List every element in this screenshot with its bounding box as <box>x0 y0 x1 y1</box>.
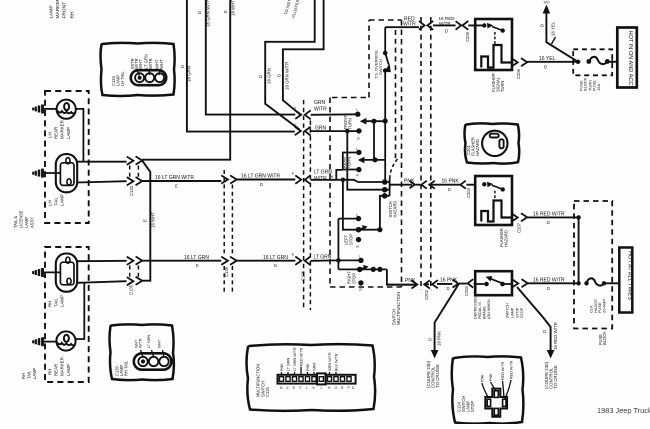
label: FUSE BLOCK <box>598 331 607 345</box>
wire: LT GRN W/TR into hazard switch <box>311 180 390 182</box>
svg-text:TO CRUISE: TO CRUISE <box>553 365 558 389</box>
label: MULTIFUNCTION SWITCH (below box) <box>392 292 402 325</box>
contact letters L/R (turn groups) <box>356 107 360 177</box>
wire: 18 GRN W/TR vertical from top <box>206 0 295 115</box>
svg-text:F: F <box>300 386 302 390</box>
label: LT GRN W/TR <box>314 170 332 183</box>
wire: LT GRN to right stop L contact <box>338 259 360 261</box>
C125 pin letters <box>280 386 355 390</box>
dashed curve notch on MF boundary <box>390 159 398 179</box>
svg-text:LAMP: LAMP <box>32 368 37 379</box>
svg-text:FRONT: FRONT <box>62 2 68 19</box>
svg-text:16 RED W/TR: 16 RED W/TR <box>533 211 565 217</box>
svg-text:PNK: PNK <box>481 374 485 382</box>
svg-text:E: E <box>175 183 178 188</box>
node: rear turn L <box>356 150 361 155</box>
node: stop output junction <box>576 281 580 285</box>
svg-text:D: D <box>547 286 550 291</box>
wire: RH tail top bulb out <box>77 260 126 262</box>
svg-text:WHT: WHT <box>158 339 162 348</box>
lamp: RH rear marker lamp <box>56 331 75 350</box>
svg-text:W/TR: W/TR <box>439 21 451 26</box>
label: STOP LAMP SWITCH C124 <box>457 396 476 412</box>
svg-text:D: D <box>448 187 451 192</box>
wire: GRN to FRONT TURN R contact <box>311 130 359 132</box>
svg-text:D: D <box>447 286 450 291</box>
svg-text:SWITCH: SWITCH <box>506 303 510 318</box>
svg-text:HOT AT ALL TIMES: HOT AT ALL TIMES <box>626 251 632 300</box>
wire: left stop bus to riser <box>360 229 380 231</box>
wire: 16 RED W/TR cruise branch with arrow <box>517 287 551 352</box>
svg-text:STOP: STOP <box>516 307 520 318</box>
ground G4 (RH rear marker) <box>33 337 56 346</box>
node: GRN junction <box>345 129 350 134</box>
node: right stop bus junctions <box>371 267 376 272</box>
rear turn contact bracket <box>343 153 358 170</box>
svg-text:C135: C135 <box>129 284 134 295</box>
node: rear turn bus junction <box>372 157 377 162</box>
svg-text:E: E <box>223 10 228 13</box>
svg-text:C125: C125 <box>301 270 306 281</box>
label: TO INSTRUMENT CLUSTER <box>283 0 300 18</box>
svg-text:REAR: REAR <box>54 364 59 376</box>
wire: 16 WHT riser from C133 junction down to C135 <box>142 161 150 281</box>
label: HAZARD FLASHER (schematic) <box>499 228 509 247</box>
svg-text:GRN W/TR: GRN W/TR <box>328 352 332 371</box>
wire: LH tail top bulb out <box>77 161 126 163</box>
svg-text:LAMP: LAMP <box>60 295 65 307</box>
dashed enclosure: RH tail lamp assembly <box>45 247 89 382</box>
T.S. override switch <box>384 27 386 52</box>
svg-text:9/O: 9/O <box>544 0 550 4</box>
svg-text:LH TAIL: LH TAIL <box>120 71 125 86</box>
tiny pin letters at bulkhead <box>292 107 297 257</box>
svg-text:16 LT GRN W/TR: 16 LT GRN W/TR <box>155 175 194 181</box>
label: LH TAIL LAMP C133 <box>111 71 125 86</box>
C124 cross connector <box>485 389 507 417</box>
wire: override riser down to hazard contact <box>384 121 386 182</box>
component view: HAZARD FLASHER C201 <box>465 123 520 163</box>
svg-text:LH: LH <box>48 132 53 138</box>
svg-text:16 WHT: 16 WHT <box>151 212 156 228</box>
wire: GRN riser to hazard mid contact <box>347 131 389 190</box>
lamp: LH tail lamp (dual bulb) <box>56 154 77 192</box>
fuse F2 (CLK HAZ/STOP 20A) <box>584 278 619 285</box>
wire: 16 RED W/TR hazard output <box>527 216 578 218</box>
svg-text:18 PNK: 18 PNK <box>437 331 442 346</box>
wire: stop output drop and exit <box>387 269 417 284</box>
ground G1 (LH rear marker lamp) <box>33 105 56 114</box>
wire: LH tail bottom bulb out <box>77 181 126 182</box>
svg-text:TAIL: TAIL <box>54 196 59 206</box>
svg-text:STOP: STOP <box>520 307 524 318</box>
svg-text:G: G <box>335 386 338 390</box>
node: left stop L contact <box>356 216 361 221</box>
svg-text:LAMP: LAMP <box>60 194 65 206</box>
svg-text:HAZARD: HAZARD <box>504 230 509 247</box>
wire: 16 LT GRN W/TR mid run <box>237 179 296 181</box>
svg-text:16 PNK: 16 PNK <box>440 278 458 284</box>
front turn wiper <box>365 120 385 122</box>
svg-text:MARKER: MARKER <box>55 0 61 19</box>
label: STOP LAMP SWITCH (ON WHEN BRAKE PEDAL IS DEPRESSED) <box>474 294 525 319</box>
wire: instrument cluster branch (outer corner) <box>283 0 324 114</box>
node: right stop L contact <box>358 258 363 263</box>
svg-text:BRAKE: BRAKE <box>483 306 487 319</box>
svg-text:LAMP: LAMP <box>66 364 71 376</box>
node: right stop R contact <box>358 280 363 285</box>
svg-text:E: E <box>196 263 199 268</box>
label: 16 RED W/TR / D <box>439 16 456 33</box>
node: 16 YEL junction <box>576 60 580 64</box>
dashed enclosure: fuse block <box>574 201 612 329</box>
wire: LT GRN feed to left stop L <box>338 218 358 220</box>
stop lamp switch internals <box>475 276 512 286</box>
wire: 16 RED W/TR into flasher <box>385 25 484 27</box>
connector dash boundaries at C133/C135 <box>130 166 139 279</box>
svg-text:16 YEL: 16 YEL <box>551 21 556 36</box>
node: rear turn R <box>356 167 361 172</box>
svg-text:W/TR: W/TR <box>148 58 153 69</box>
svg-text:C207: C207 <box>517 222 522 233</box>
component view: MULTIFUNCTION SWITCH C125 <box>247 344 376 411</box>
svg-text:WHT: WHT <box>138 59 143 69</box>
component view: RH TAIL LAMP C135 <box>110 324 174 380</box>
svg-text:BLOCK: BLOCK <box>602 331 607 345</box>
connector dash boundaries C138 <box>224 170 232 292</box>
svg-text:E: E <box>143 219 148 222</box>
svg-text:MARKER: MARKER <box>60 357 65 376</box>
wire: junction riser to stop feed <box>578 217 580 283</box>
svg-text:L: L <box>356 107 358 111</box>
wire: 18 PNK cruise control branch with arrow <box>435 284 459 352</box>
svg-text:TAIL: TAIL <box>54 297 59 307</box>
svg-text:16 RED W/TR: 16 RED W/TR <box>533 277 565 283</box>
wire: 16 PNK hazard feed <box>390 184 476 186</box>
wire: LT GRN W/TR drop to left stop wiper <box>343 180 358 230</box>
node: LT GRN junction <box>336 258 341 263</box>
label: LH TAIL LAMP <box>48 194 65 206</box>
wire: instrument cluster branch (inner corner) <box>265 0 315 130</box>
label: RH REAR MARKER LAMP <box>48 357 72 376</box>
fuse F1 (turn fuse 15A) <box>586 57 617 68</box>
svg-text:18 GRN: 18 GRN <box>267 68 272 84</box>
node: LT GRN W/TR junction <box>341 178 346 183</box>
C124 pin labels with leaders <box>482 380 511 400</box>
wire: right stop bus <box>338 268 387 270</box>
hazard flasher U2 box <box>475 176 512 225</box>
svg-text:RED W/TR: RED W/TR <box>300 347 304 366</box>
svg-text:C133: C133 <box>129 185 134 196</box>
svg-text:D: D <box>428 338 433 341</box>
svg-text:LT GRN W/TR: LT GRN W/TR <box>293 347 297 371</box>
svg-text:D: D <box>540 24 545 27</box>
node: front turn L <box>355 112 360 117</box>
svg-text:LAMP: LAMP <box>66 127 71 139</box>
power box: HOT IN ON AND ACCY <box>617 28 637 88</box>
svg-text:W/TR: W/TR <box>139 338 143 348</box>
label: TO CRUISE CONTROL (COUPE 230) right <box>544 361 558 389</box>
svg-text:HAZARD: HAZARD <box>475 139 480 156</box>
label: TURN SIGNAL FLASHER <box>491 73 505 92</box>
svg-text:STOP: STOP <box>348 234 353 245</box>
wire: LT GRN riser <box>337 219 339 270</box>
label: GRN W/TR (right of bulkhead) <box>314 100 327 113</box>
wire: branch to rear turn bracket <box>336 170 343 180</box>
svg-text:C206: C206 <box>516 68 521 79</box>
svg-text:LT GRN: LT GRN <box>287 357 291 371</box>
node: front turn R <box>356 128 361 133</box>
connector C125 bulkhead chevrons (4 wires) <box>295 110 311 265</box>
wire: 16 LT GRN into box <box>311 259 339 261</box>
svg-text:C202: C202 <box>424 289 429 300</box>
label: T.S. OVERRIDE SWITCH <box>374 50 383 79</box>
node: left stop bus junction <box>377 227 382 232</box>
svg-text:STOP: STOP <box>351 273 356 284</box>
node: hazard output junction <box>576 215 580 219</box>
label: HAZARD FLASHER C201 <box>466 137 480 156</box>
svg-text:16 LT GRN W/TR: 16 LT GRN W/TR <box>241 174 280 180</box>
label: FRONT TURN <box>343 115 352 130</box>
svg-text:16 LT GRN: 16 LT GRN <box>184 255 209 261</box>
hazard switch common bar <box>389 179 391 196</box>
rear turn wiper <box>364 159 386 161</box>
svg-text:PEDAL IS: PEDAL IS <box>478 302 482 319</box>
svg-text:D: D <box>542 330 547 333</box>
svg-text:Z: Z <box>287 386 289 390</box>
svg-text:RH: RH <box>70 11 76 18</box>
ground G2 (LH tail lamp) <box>33 169 60 178</box>
turn signal flasher internals <box>481 23 511 68</box>
svg-text:D: D <box>180 65 185 68</box>
connector C133 in-line chevrons (4 wires) <box>127 156 142 285</box>
svg-text:C204: C204 <box>464 285 469 296</box>
svg-text:C205: C205 <box>465 31 470 42</box>
wire: 18 WHT feed down to C133 junction <box>142 0 230 160</box>
labels: C135 pin wires <box>135 334 162 348</box>
node: left stop R contact <box>356 237 361 242</box>
left stop wiper node and blade <box>356 227 362 233</box>
connector dash boundaries (bulkhead) <box>304 100 311 310</box>
svg-text:18 GRN: 18 GRN <box>187 66 192 82</box>
svg-text:TURN: TURN <box>348 118 353 129</box>
svg-text:REAR: REAR <box>54 127 59 139</box>
label: RH TAIL LAMP (below oval) <box>48 295 65 307</box>
svg-text:1983 Jeep Truck: 1983 Jeep Truck <box>597 406 650 415</box>
svg-text:PNK: PNK <box>280 363 284 371</box>
wire: 16 LT GRN (RH top run) <box>142 260 221 262</box>
svg-text:18 GRN W/TR: 18 GRN W/TR <box>206 0 211 27</box>
svg-text:RH: RH <box>48 369 53 375</box>
hazard switch contact nodes <box>382 179 388 185</box>
label: RH TAIL LAMP C135 <box>115 360 129 376</box>
svg-text:C139: C139 <box>224 266 229 277</box>
stop lamp switch S1 box <box>475 271 512 295</box>
svg-text:D: D <box>197 11 202 14</box>
svg-text:15A: 15A <box>596 84 601 91</box>
label: LH REAR MARKER LAMP <box>48 120 72 139</box>
wire: marker lamp to LH tail top feed <box>76 109 84 162</box>
svg-text:GRN: GRN <box>314 100 326 106</box>
hazard flasher internals <box>481 182 511 222</box>
component view: STOP LAMP SWITCH C124 <box>452 356 524 423</box>
wire: front-to-rear turn bus link <box>373 121 375 160</box>
svg-text:GRN: GRN <box>313 362 317 371</box>
svg-text:20 AMP: 20 AMP <box>601 299 606 313</box>
label: CLK HAZ/STOP FUSE 20 AMP <box>589 298 607 313</box>
wire: 16 LT GRN W/TR (LH bottom run) <box>142 180 221 182</box>
connector C138 in-line chevrons <box>221 175 236 264</box>
svg-text:RH: RH <box>21 373 26 379</box>
svg-text:L: L <box>306 386 308 390</box>
label: FUSE BLOCK TURN FUSE 15A <box>578 77 601 91</box>
svg-text:ASSY: ASSY <box>30 217 35 228</box>
svg-text:LAMP: LAMP <box>511 307 515 318</box>
label: RH TAIL LAMP (left of lower box) <box>21 368 37 379</box>
svg-text:16 PNK: 16 PNK <box>442 179 460 185</box>
label: REAR TURN <box>342 157 351 168</box>
label: RIGHT STOP <box>347 271 357 284</box>
power box: HOT AT ALL TIMES <box>619 248 632 313</box>
label: TAIL & LICENSE LAMP (left of box bottom) <box>13 210 35 228</box>
dashed enclosure: multifunction switch <box>330 20 402 287</box>
svg-text:BLK W/TR: BLK W/TR <box>335 353 339 371</box>
lamp: LH rear marker lamp <box>57 100 76 119</box>
turn signal flasher U1 box <box>475 19 512 70</box>
hazard flasher output chevrons <box>512 213 528 221</box>
label: LEFT STOP <box>344 234 354 245</box>
label: TO CRUISE CONTROL (COUPE 230) <box>426 360 440 388</box>
wire: 18 GRN vertical from top <box>187 0 295 132</box>
svg-text:LH: LH <box>48 200 53 206</box>
label: HAZARD SWITCH <box>388 201 398 218</box>
wire: 16 YEL to fuse <box>527 61 580 63</box>
svg-text:SWITCH: SWITCH <box>378 59 383 75</box>
svg-text:DEPRESSED): DEPRESSED) <box>474 294 478 319</box>
svg-text:TAIL: TAIL <box>27 370 32 379</box>
svg-text:PNK: PNK <box>306 363 310 371</box>
label: RED W/TR <box>403 17 416 28</box>
dashed enclosure: turn fuse block <box>573 49 612 75</box>
wire: hazard third contact L-drop <box>380 196 390 230</box>
component view: LH TAIL LAMP C133 <box>101 43 175 96</box>
svg-text:HAZARD: HAZARD <box>392 201 397 218</box>
stop switch output chevrons <box>512 279 528 287</box>
svg-text:RED W/TR: RED W/TR <box>510 360 514 379</box>
wire: 16 RED W/TR stop output <box>528 282 581 284</box>
wire: 16 PNK stop feed <box>387 283 475 284</box>
svg-text:D: D <box>274 263 277 268</box>
svg-text:16 LT GRN: 16 LT GRN <box>263 255 288 261</box>
wire: RH marker drop <box>76 283 85 339</box>
labels: C133 pin wires <box>130 54 164 69</box>
node: front turn bus junctions <box>371 119 376 124</box>
wire: GRN W/TR to FRONT TURN L contact <box>311 113 358 116</box>
svg-text:WHT: WHT <box>159 59 164 69</box>
svg-text:MARKER: MARKER <box>60 120 65 139</box>
svg-text:HOT IN ON AND ACCY: HOT IN ON AND ACCY <box>627 31 633 90</box>
steering column connector dashes <box>396 17 431 290</box>
svg-text:TAIL &: TAIL & <box>13 216 18 228</box>
right stop wiper node and blade <box>357 267 363 273</box>
svg-text:(ON WHEN: (ON WHEN <box>487 299 491 319</box>
svg-text:L: L <box>356 213 358 217</box>
contact letters L/R (stop groups) <box>356 213 362 292</box>
svg-text:L: L <box>359 255 361 259</box>
svg-text:J: J <box>320 386 322 390</box>
svg-text:TURN: TURN <box>500 81 505 92</box>
svg-text:C203: C203 <box>466 187 471 198</box>
svg-text:TO CRUISE: TO CRUISE <box>435 364 440 388</box>
wire: 16 LT GRN mid run <box>237 260 296 262</box>
svg-text:D: D <box>258 75 263 78</box>
wire: RH tail bottom bulb out, tee to marker <box>77 281 126 283</box>
connector chevrons on RED W/TR <box>419 21 468 30</box>
svg-text:D: D <box>445 29 448 34</box>
svg-text:LICENSE: LICENSE <box>19 210 24 228</box>
svg-text:D: D <box>277 74 282 77</box>
label: MULTIFUNCTION SWITCH C125 <box>256 364 271 397</box>
label: RH FRONT MARKER LAMP (top left corner) <box>49 0 76 19</box>
svg-text:D: D <box>544 65 547 70</box>
svg-text:16 RED W/TR: 16 RED W/TR <box>553 322 558 350</box>
svg-text:LAMP: LAMP <box>49 5 55 18</box>
dashed enclosure: LH tail lamp assembly <box>45 91 89 223</box>
C125 connector strip <box>278 373 356 384</box>
svg-text:W/TR: W/TR <box>314 107 327 113</box>
svg-text:STOP: STOP <box>470 401 475 412</box>
flasher output chevrons <box>512 58 528 66</box>
svg-text:LT GRN: LT GRN <box>147 334 151 348</box>
svg-text:RED W/TR: RED W/TR <box>501 361 505 380</box>
svg-text:18 WHT: 18 WHT <box>231 0 236 16</box>
C125 pin wire labels with leaders <box>282 367 337 375</box>
svg-text:MULTIFUNCTION: MULTIFUNCTION <box>396 292 401 325</box>
svg-text:18 GRN W/TR: 18 GRN W/TR <box>285 62 290 90</box>
svg-text:PNK: PNK <box>489 373 493 381</box>
svg-text:LAMP: LAMP <box>24 217 29 228</box>
svg-text:16 YEL: 16 YEL <box>539 56 556 62</box>
svg-text:D: D <box>547 220 550 225</box>
svg-text:D: D <box>260 182 263 187</box>
wire: 16 YEL riser with up arrow <box>546 13 578 62</box>
svg-text:RH TAIL: RH TAIL <box>124 360 129 376</box>
svg-text:C125: C125 <box>265 386 270 397</box>
lamp: RH tail lamp (dual bulb) <box>56 254 77 292</box>
ground G3 (RH tail lamp) <box>33 268 60 277</box>
svg-text:RH: RH <box>48 301 53 307</box>
